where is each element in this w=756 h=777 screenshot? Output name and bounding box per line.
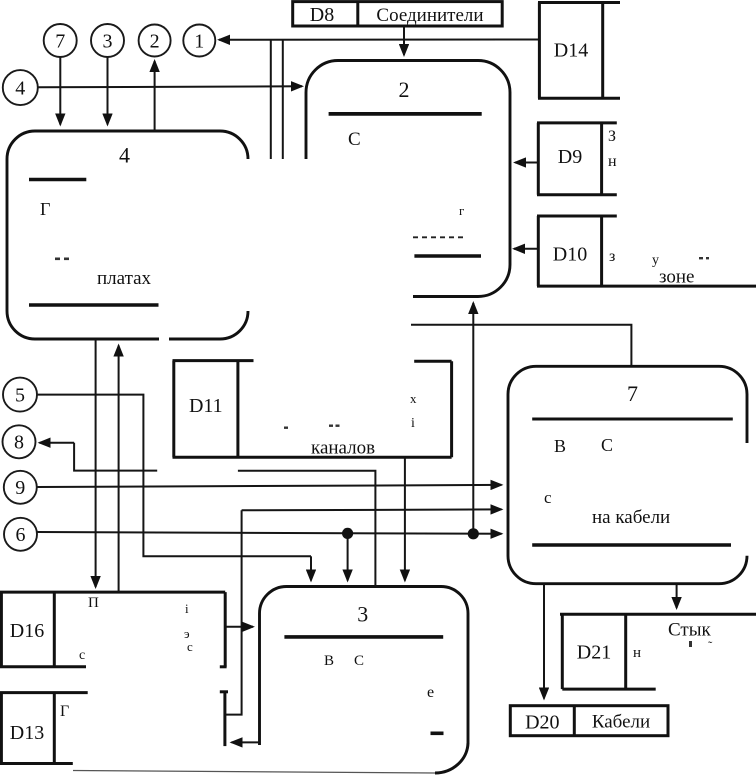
- svg-text:7: 7: [55, 31, 65, 53]
- svg-text:г: г: [459, 203, 464, 218]
- svg-text:6: 6: [16, 524, 26, 546]
- svg-text:2: 2: [399, 77, 410, 102]
- svg-text:D21: D21: [577, 642, 611, 664]
- svg-text:9: 9: [15, 477, 25, 499]
- svg-text:С: С: [601, 435, 613, 455]
- svg-text:і: і: [411, 416, 415, 431]
- svg-text:D16: D16: [10, 620, 44, 642]
- svg-text:З: З: [608, 128, 616, 145]
- svg-text:D10: D10: [553, 244, 587, 266]
- svg-text:4: 4: [15, 78, 25, 100]
- svg-text:каналов: каналов: [311, 438, 375, 459]
- svg-text:D8: D8: [310, 4, 334, 26]
- svg-text:В: В: [324, 653, 334, 669]
- svg-text:з: з: [609, 248, 615, 265]
- svg-text:2: 2: [150, 31, 160, 53]
- svg-text:D20: D20: [525, 712, 559, 734]
- svg-text:D11: D11: [189, 395, 223, 417]
- svg-text:е: е: [427, 684, 434, 701]
- svg-text:Г: Г: [40, 199, 50, 219]
- svg-text:Г: Г: [60, 703, 69, 720]
- svg-text:С: С: [348, 129, 361, 150]
- svg-text:х: х: [410, 391, 417, 406]
- svg-text:с: с: [187, 639, 193, 654]
- svg-text:н: н: [608, 153, 617, 170]
- svg-text:4: 4: [119, 143, 130, 168]
- svg-text:D14: D14: [554, 40, 588, 62]
- svg-text:с: с: [79, 648, 85, 663]
- svg-text:і: і: [185, 601, 189, 616]
- svg-text:1: 1: [194, 31, 204, 53]
- svg-text:Кабели: Кабели: [592, 712, 650, 733]
- svg-text:3: 3: [357, 602, 368, 627]
- svg-text:зоне: зоне: [659, 267, 695, 288]
- svg-text:3: 3: [103, 31, 113, 53]
- svg-text:D9: D9: [558, 146, 582, 168]
- svg-text:платах: платах: [97, 268, 152, 289]
- svg-text:5: 5: [15, 385, 25, 407]
- svg-text:˜: ˜: [708, 638, 713, 653]
- svg-text:D13: D13: [10, 722, 44, 744]
- svg-text:с: с: [544, 488, 552, 507]
- svg-text:7: 7: [627, 381, 638, 406]
- svg-text:С: С: [354, 653, 364, 669]
- svg-text:В: В: [554, 436, 566, 456]
- svg-text:у: у: [652, 253, 659, 268]
- svg-text:на кабели: на кабели: [592, 507, 670, 528]
- svg-text:Соединители: Соединители: [376, 5, 483, 26]
- svg-text:8: 8: [14, 432, 24, 454]
- svg-text:н: н: [633, 645, 641, 661]
- svg-text:П: П: [88, 595, 99, 611]
- svg-text:Стык: Стык: [668, 620, 711, 641]
